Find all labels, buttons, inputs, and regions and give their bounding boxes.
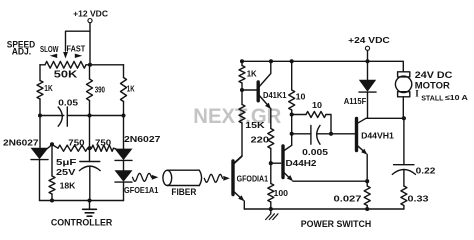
svg-text:50K: 50K bbox=[54, 70, 78, 81]
svg-text:1K: 1K bbox=[44, 84, 53, 93]
svg-text:0.005: 0.005 bbox=[302, 148, 328, 157]
svg-text:GFOE1A1: GFOE1A1 bbox=[124, 185, 159, 195]
svg-text:2N6027: 2N6027 bbox=[3, 139, 39, 148]
svg-text:5μF: 5μF bbox=[56, 158, 76, 167]
svg-text:SLOW: SLOW bbox=[40, 44, 59, 54]
svg-text:+24 VDC: +24 VDC bbox=[348, 35, 390, 45]
svg-text:2N6027: 2N6027 bbox=[124, 135, 161, 144]
svg-text:390: 390 bbox=[95, 86, 106, 95]
svg-text:CONTROLLER: CONTROLLER bbox=[51, 217, 113, 227]
svg-text:750: 750 bbox=[68, 139, 85, 148]
svg-text:750: 750 bbox=[95, 139, 112, 148]
svg-text:POWER SWITCH: POWER SWITCH bbox=[301, 219, 371, 229]
svg-text:I: I bbox=[415, 88, 419, 98]
svg-text:24V DC: 24V DC bbox=[415, 70, 453, 80]
svg-text:GFODIA1: GFODIA1 bbox=[237, 174, 269, 184]
svg-text:+12 VDC: +12 VDC bbox=[73, 9, 108, 19]
svg-text:220: 220 bbox=[251, 135, 270, 144]
svg-text:100: 100 bbox=[274, 189, 289, 198]
svg-text:ADJ.: ADJ. bbox=[12, 46, 32, 56]
svg-text:0.33: 0.33 bbox=[408, 194, 430, 203]
svg-text:15K: 15K bbox=[245, 120, 265, 130]
svg-text:18K: 18K bbox=[60, 182, 76, 191]
svg-text:10: 10 bbox=[296, 93, 306, 102]
svg-text:D44H2: D44H2 bbox=[286, 159, 318, 168]
svg-text:1K: 1K bbox=[127, 84, 135, 93]
svg-text:0.027: 0.027 bbox=[334, 194, 363, 203]
svg-text:STALL: STALL bbox=[421, 93, 444, 102]
svg-text:D41K1: D41K1 bbox=[263, 91, 287, 100]
svg-text:1K: 1K bbox=[247, 69, 257, 78]
svg-text:A115F: A115F bbox=[344, 97, 367, 106]
svg-text:D44VH1: D44VH1 bbox=[361, 132, 394, 141]
svg-text:FIBER: FIBER bbox=[171, 187, 196, 197]
svg-text:0.05: 0.05 bbox=[58, 99, 78, 108]
svg-text:MOTOR: MOTOR bbox=[415, 81, 451, 91]
svg-text:0.22: 0.22 bbox=[416, 167, 436, 176]
svg-text:FAST: FAST bbox=[67, 44, 86, 54]
svg-text:≤10 A: ≤10 A bbox=[445, 93, 469, 102]
svg-text:25V: 25V bbox=[56, 168, 76, 177]
svg-text:10: 10 bbox=[312, 101, 323, 110]
